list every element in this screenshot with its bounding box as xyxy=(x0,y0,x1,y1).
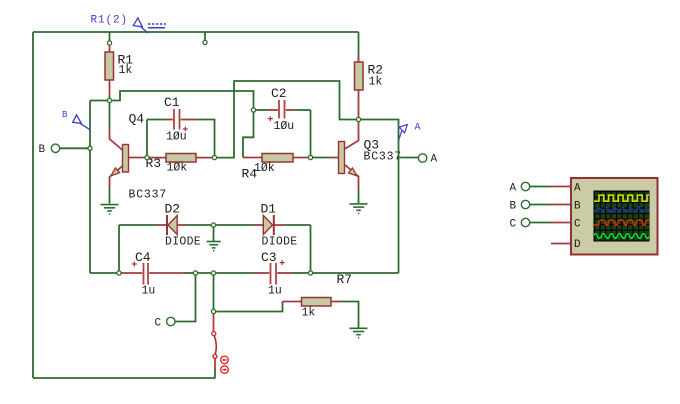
wire scope A xyxy=(530,186,550,188)
svg-text:1Øu: 1Øu xyxy=(166,131,187,144)
resistor R2 xyxy=(355,32,364,118)
node junction at terminal B xyxy=(88,146,92,150)
node junction C4 left xyxy=(117,271,121,275)
node junction switch top xyxy=(211,271,215,275)
svg-text:B: B xyxy=(574,200,581,212)
svg-text:1Øk: 1Øk xyxy=(167,162,188,175)
blue probe arrow at B node xyxy=(73,115,90,130)
node junction Q4 base xyxy=(145,156,149,160)
wire D2 left riser to C4 row xyxy=(118,225,120,273)
terminal A xyxy=(418,154,426,162)
blue dashes label xyxy=(148,24,166,28)
value + of C4 xyxy=(132,262,137,267)
capacitor C4 xyxy=(119,263,194,285)
wire C1 right to R3 right riser xyxy=(196,120,215,156)
wire switch node riser down xyxy=(213,273,215,312)
svg-text:DIODE: DIODE xyxy=(262,236,298,249)
svg-text:C2: C2 xyxy=(271,86,287,101)
wire top power rail xyxy=(33,31,359,33)
svg-text:1k: 1k xyxy=(119,64,133,77)
svg-text:B: B xyxy=(39,144,46,156)
svg-text:DIODE: DIODE xyxy=(165,236,201,249)
node junction between diodes xyxy=(211,223,215,227)
wire between cap row junctions xyxy=(196,272,214,274)
svg-text:C1: C1 xyxy=(164,95,180,110)
svg-text:C: C xyxy=(155,318,162,330)
node dangling stub on top rail xyxy=(203,32,207,45)
diode D1 xyxy=(214,215,311,235)
svg-text:1k: 1k xyxy=(302,307,316,320)
ground between diodes xyxy=(207,242,221,251)
wire C1 left horizontal xyxy=(147,119,166,121)
svg-text:C4: C4 xyxy=(135,250,151,265)
svg-text:R1(2): R1(2) xyxy=(91,14,129,26)
svg-text:R7: R7 xyxy=(337,272,353,287)
node junction C3 right / R7 row xyxy=(308,271,312,275)
scope trace blue sine xyxy=(594,207,650,212)
node junction C2 left xyxy=(251,108,255,112)
wire D1 right riser to C3 row xyxy=(310,225,312,273)
wire bottom rail xyxy=(33,377,216,379)
wire junction to left vertical xyxy=(90,100,110,102)
switch SW (to bottom rail) xyxy=(212,314,217,378)
wire left rail xyxy=(32,32,34,378)
terminal B xyxy=(51,144,59,152)
ground below Q4 xyxy=(101,205,119,214)
svg-text:1u: 1u xyxy=(142,285,156,298)
resistor R4 xyxy=(243,154,309,163)
wire junction to 1k resistor xyxy=(214,302,283,312)
svg-text:B: B xyxy=(62,110,68,120)
svg-text:D1: D1 xyxy=(261,202,277,217)
node junction R2 bottom / Q3 collector xyxy=(356,117,360,121)
svg-text:1Øk: 1Øk xyxy=(254,162,275,175)
scope trace yellow square wave xyxy=(594,195,650,201)
switch actuator arrows xyxy=(221,356,229,373)
wire scope B xyxy=(530,204,550,206)
svg-text:A: A xyxy=(431,154,438,166)
capacitor C1 xyxy=(166,109,196,130)
svg-text:C3: C3 xyxy=(261,250,277,265)
value + of C1 xyxy=(183,127,188,132)
svg-text:C: C xyxy=(510,218,517,230)
svg-text:A: A xyxy=(415,122,421,133)
scope trace green sine xyxy=(594,234,652,239)
svg-text:A: A xyxy=(510,182,517,194)
wire R7 row to A riser xyxy=(311,272,399,274)
ground below Q3 xyxy=(350,204,368,213)
node junction C4 right xyxy=(193,271,197,275)
node junction above switch xyxy=(211,309,215,313)
terminal C xyxy=(167,317,175,325)
svg-text:1u: 1u xyxy=(268,285,282,298)
svg-text:1Øu: 1Øu xyxy=(274,120,295,133)
svg-text:BC337: BC337 xyxy=(364,151,403,164)
svg-text:1k: 1k xyxy=(369,75,383,88)
wire scope D pin xyxy=(551,243,571,245)
transistor Q3 (BC337) xyxy=(311,121,359,203)
wire C2 right riser to Q3 base xyxy=(310,110,312,156)
svg-text:Q4: Q4 xyxy=(129,112,145,127)
svg-text:B: B xyxy=(510,200,517,212)
wire C2 left jog down to R4 xyxy=(243,110,254,158)
wire B terminal to junction xyxy=(60,147,90,149)
node junction below R1 xyxy=(107,98,111,102)
resistor R7 1k xyxy=(283,298,359,328)
node junction Q3 base xyxy=(308,155,312,159)
resistor R1 xyxy=(105,45,114,101)
wire collector node to A riser xyxy=(359,120,399,274)
value + of C3 xyxy=(280,260,285,265)
svg-text:C: C xyxy=(574,218,581,230)
oscilloscope body xyxy=(571,178,658,255)
node junction R3 right / C1 right xyxy=(212,156,216,160)
svg-text:BC337: BC337 xyxy=(129,189,168,202)
svg-text:D: D xyxy=(574,239,581,251)
value + of C2 xyxy=(268,116,273,121)
blue probe arrow at A node xyxy=(399,125,408,141)
svg-text:A: A xyxy=(574,182,581,194)
transistor Q4 (mirrored, BC337) xyxy=(110,101,146,204)
oscilloscope screen xyxy=(594,191,650,242)
svg-text:D2: D2 xyxy=(165,202,181,217)
wire scope C xyxy=(530,222,550,224)
wire left vertical to C4 row xyxy=(89,101,91,274)
wire C1 left riser xyxy=(146,120,148,156)
wire R1 node to C2 node xyxy=(110,91,254,108)
wire diode node to ground xyxy=(213,225,215,241)
wire stub to R1 top xyxy=(107,32,111,45)
capacitor C2 xyxy=(256,100,311,119)
blue probe arrow on top rail xyxy=(133,18,148,33)
ground below 1k resistor xyxy=(350,328,368,337)
wire coupling R3 node to Q3 collector node xyxy=(215,81,357,158)
resistor R3 xyxy=(149,154,213,163)
wire to terminal A xyxy=(399,157,419,159)
wire C4 row left segment xyxy=(90,272,117,274)
capacitor C3 xyxy=(214,263,309,285)
diode D2 xyxy=(119,215,212,235)
scope trace red square wave xyxy=(594,220,655,225)
wire C4 right riser to terminal C xyxy=(175,273,196,322)
